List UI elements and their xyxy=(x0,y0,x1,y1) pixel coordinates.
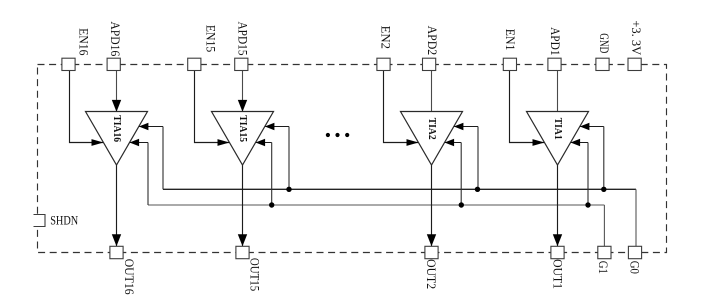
junction dots on G1 bus xyxy=(269,202,591,207)
wire APD1 pad to TIA1 top input xyxy=(557,70,559,111)
pad OUT2 xyxy=(424,246,438,289)
svg-text:TIA2: TIA2 xyxy=(426,118,437,140)
svg-text:OUT15: OUT15 xyxy=(248,258,262,291)
svg-text:APD1: APD1 xyxy=(548,27,562,55)
wire TIA16 upper gain-select from G0 bus xyxy=(139,123,163,190)
wire EN2 pad to TIA2 enable input xyxy=(384,70,419,145)
wire TIA16 lower gain-select from G1 bus xyxy=(130,139,149,205)
svg-text:TIA16: TIA16 xyxy=(111,115,122,142)
wire EN15 pad to TIA15 enable input xyxy=(195,70,230,145)
svg-text:G0: G0 xyxy=(628,261,642,274)
svg-text:OUT2: OUT2 xyxy=(424,259,438,289)
wire TIA16 output to OUT16 pad xyxy=(112,165,121,246)
pad EN2 xyxy=(377,26,393,71)
svg-text:EN15: EN15 xyxy=(203,25,217,52)
pad +3. 3V xyxy=(628,20,643,70)
svg-text:APD16: APD16 xyxy=(108,21,122,56)
wire TIA1 upper gain-select from G0 bus xyxy=(580,123,604,190)
svg-text:OUT1: OUT1 xyxy=(550,259,564,289)
wire TIA2 output to OUT2 pad xyxy=(427,165,436,246)
wire TIA1 lower gain-select from G1 bus xyxy=(571,139,589,205)
svg-text:SHDN: SHDN xyxy=(50,213,78,227)
svg-text:TIA1: TIA1 xyxy=(552,118,563,140)
chip boundary (dashed) xyxy=(38,65,667,253)
svg-text:+3. 3V: +3. 3V xyxy=(629,20,643,55)
svg-text:EN16: EN16 xyxy=(77,28,91,55)
pad SHDN xyxy=(34,213,79,227)
wire APD2 pad to TIA2 top input xyxy=(431,70,433,111)
pad EN15 xyxy=(188,25,218,71)
wire APD15 pad to TIA15 top input xyxy=(238,70,247,112)
wire EN1 pad to TIA1 enable input xyxy=(510,70,545,145)
pad G0 xyxy=(628,246,642,274)
op-amp TIA1 xyxy=(527,112,589,166)
svg-text:EN1: EN1 xyxy=(503,29,517,51)
pad G1 xyxy=(596,246,611,274)
op-amp TIA2 xyxy=(401,112,463,166)
svg-text:GND: GND xyxy=(597,33,611,53)
svg-text:OUT16: OUT16 xyxy=(122,259,136,295)
net G1 bus (lower horizontal rail) xyxy=(148,204,604,206)
svg-text:G1: G1 xyxy=(596,261,610,274)
ellipsis (channels 3..14 omitted) xyxy=(326,133,350,137)
wire G1 bus corner down to G1 pad xyxy=(603,205,605,246)
wire EN16 pad to TIA16 enable input xyxy=(70,70,104,145)
op-amp TIA15 xyxy=(212,112,274,166)
pad APD16 xyxy=(107,21,122,70)
wire TIA1 output to OUT1 pad xyxy=(553,165,562,246)
wire TIA15 upper gain-select from G0 bus xyxy=(265,123,289,190)
pad OUT16 xyxy=(110,246,136,294)
pad OUT15 xyxy=(236,246,262,291)
svg-text:APD2: APD2 xyxy=(425,26,439,56)
pad OUT1 xyxy=(550,246,564,289)
pad APD15 xyxy=(235,22,250,71)
wire G0 bus corner down to G0 pad xyxy=(635,189,637,246)
wire TIA2 lower gain-select from G1 bus xyxy=(445,139,462,205)
svg-text:TIA15: TIA15 xyxy=(237,115,248,142)
net G0 bus (upper horizontal rail) xyxy=(163,188,636,190)
pad APD1 xyxy=(548,27,562,70)
wire APD16 pad to TIA16 top input xyxy=(112,70,121,112)
junction dots on G0 bus xyxy=(286,187,606,192)
svg-text:EN2: EN2 xyxy=(379,26,393,49)
wire TIA15 output to OUT15 pad xyxy=(238,165,247,246)
pad GND xyxy=(596,33,611,70)
wire TIA2 upper gain-select from G0 bus xyxy=(454,123,478,190)
wire TIA15 lower gain-select from G1 bus xyxy=(256,139,272,205)
pad APD2 xyxy=(423,26,440,71)
op-amp TIA16 xyxy=(86,112,148,166)
pad EN1 xyxy=(503,29,517,71)
pad EN16 xyxy=(62,28,91,70)
svg-text:APD15: APD15 xyxy=(235,22,249,56)
